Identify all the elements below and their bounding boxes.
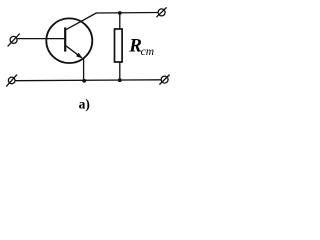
svg-text:а): а) — [79, 96, 90, 111]
svg-text:ст: ст — [141, 46, 154, 58]
